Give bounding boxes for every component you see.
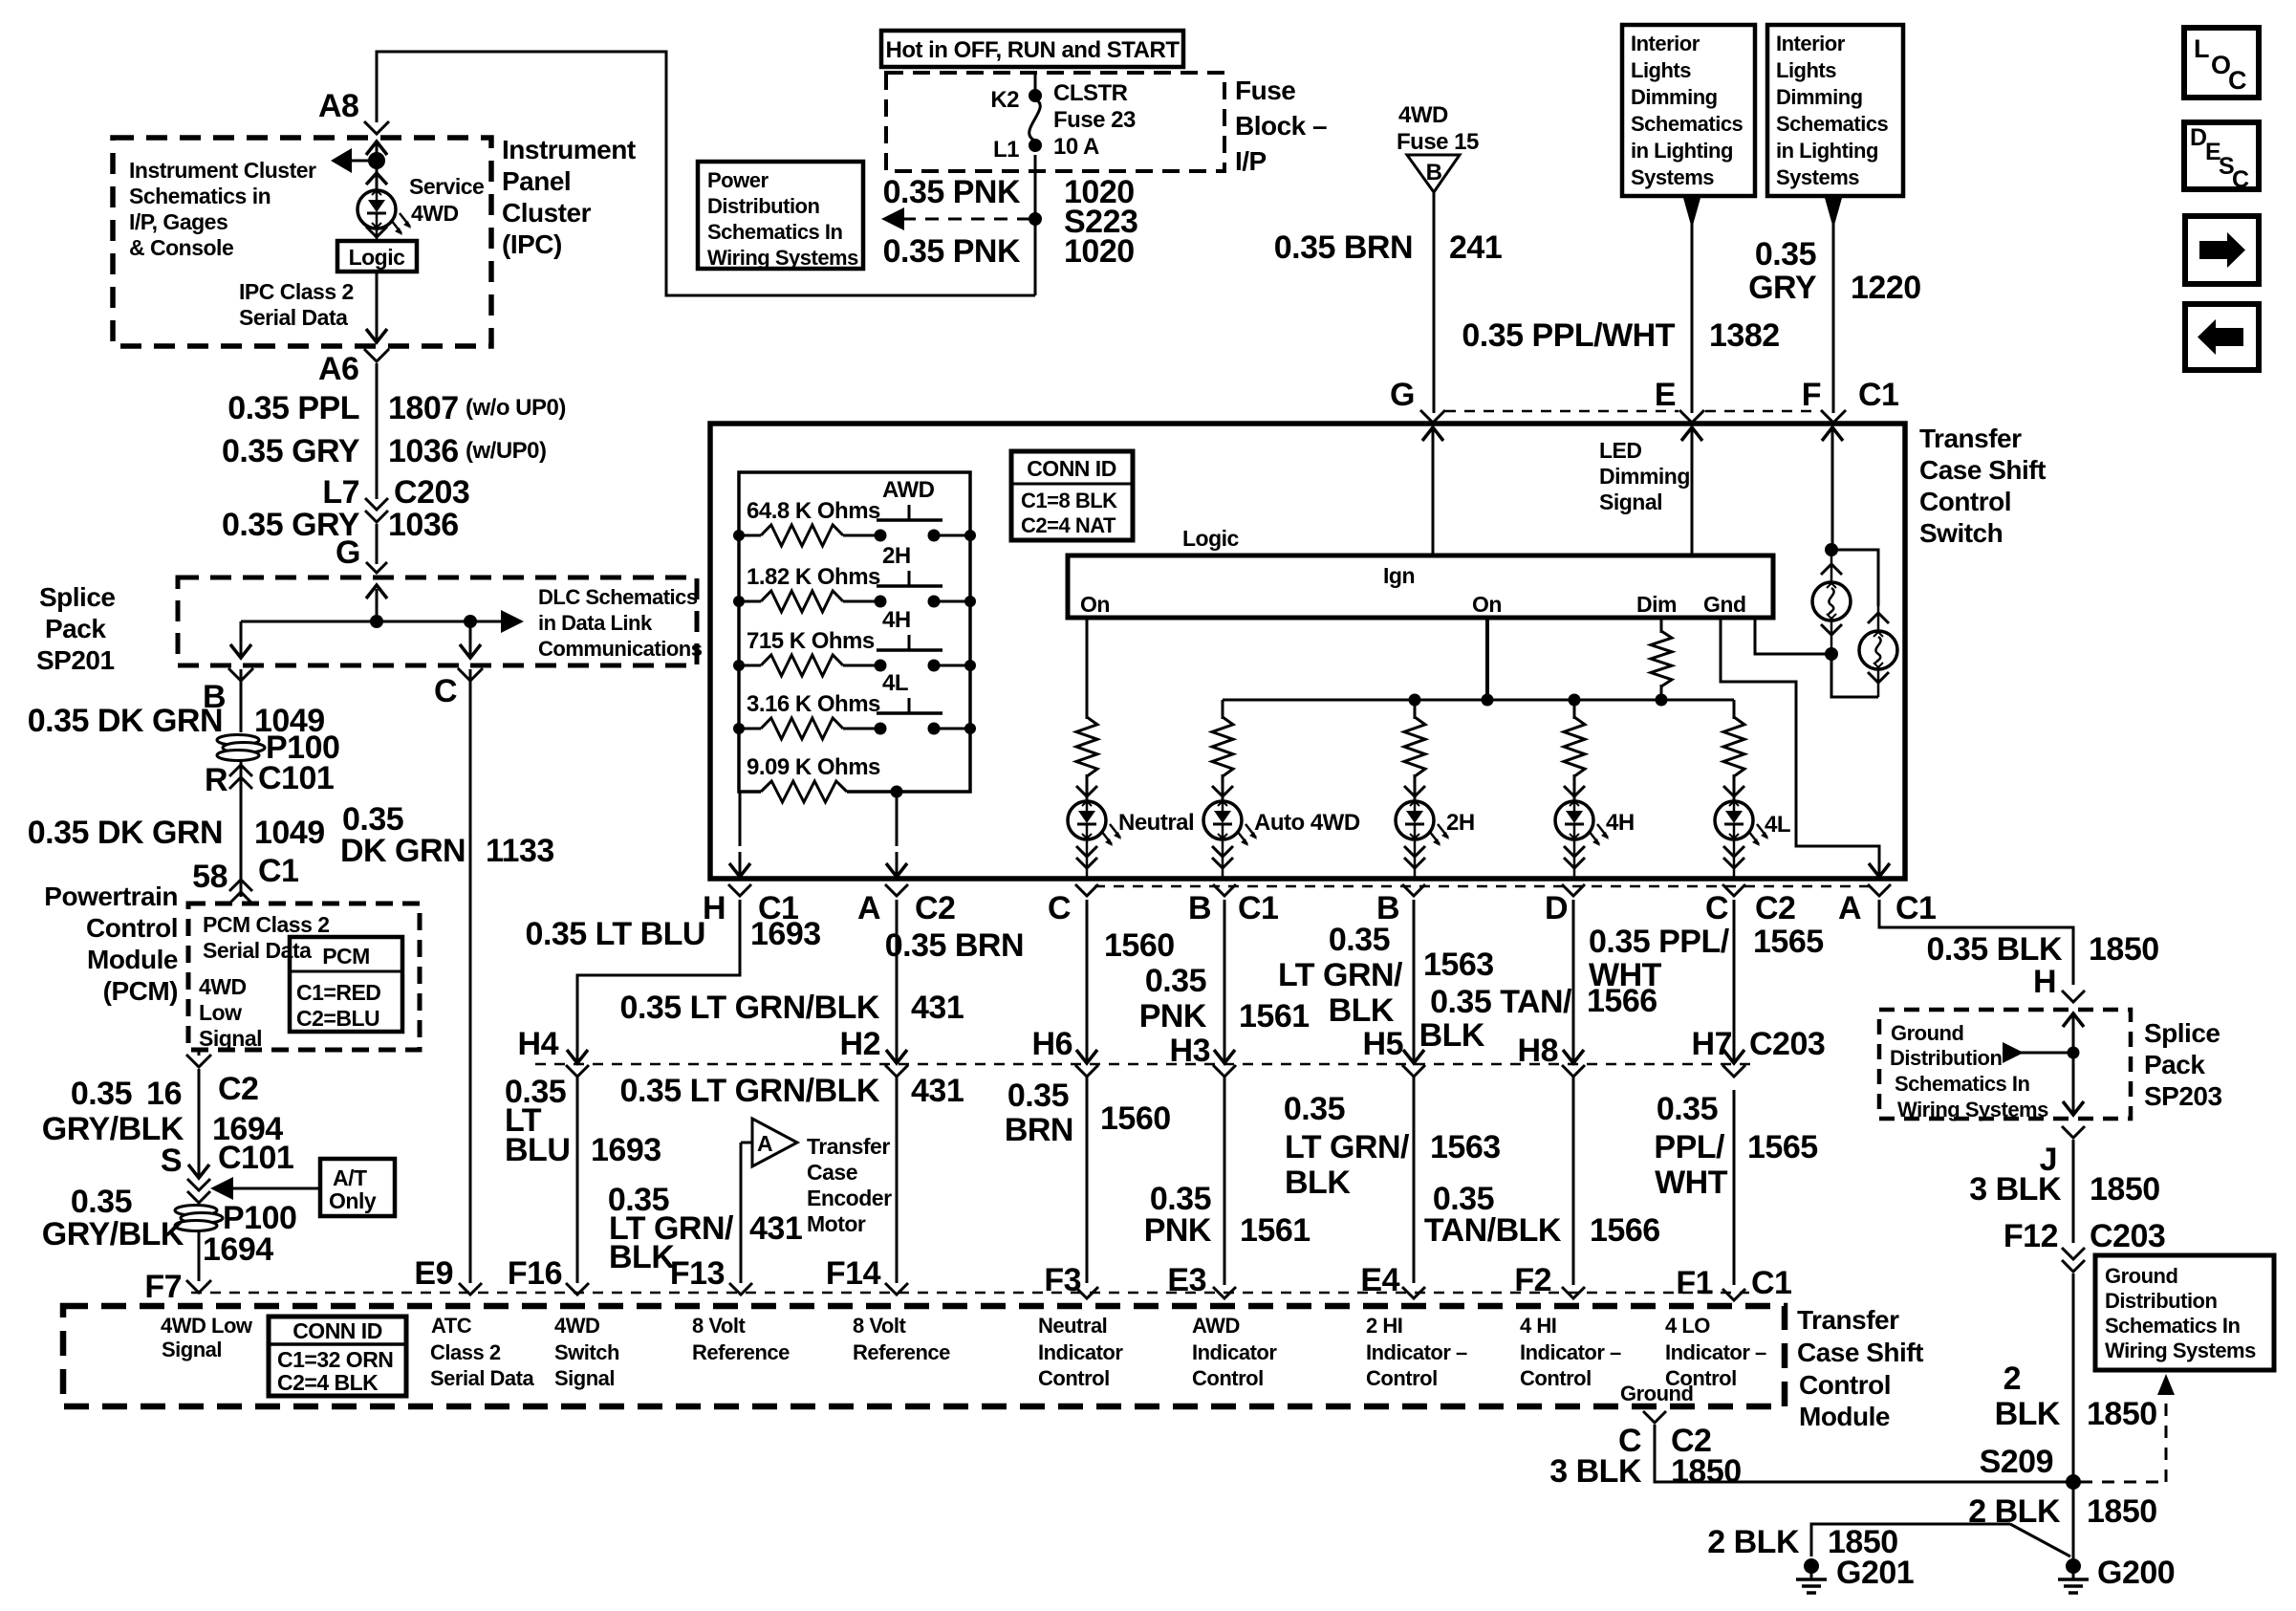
wire PCM C2 to C101 <box>198 1069 201 1165</box>
svg-text:Ground: Ground <box>2105 1264 2177 1288</box>
label Dim <box>1636 592 1677 617</box>
connector B below switch (2HI) <box>1376 884 1425 926</box>
svg-text:Dimming: Dimming <box>1599 464 1690 489</box>
svg-text:B: B <box>1188 890 1211 926</box>
label 3 BLK 1850 (J) <box>1969 1171 2159 1208</box>
power distribution box <box>698 162 863 270</box>
connector F16 <box>508 1255 589 1295</box>
svg-text:Control: Control <box>1799 1370 1891 1400</box>
svg-text:64.8 K Ohms: 64.8 K Ohms <box>747 498 880 524</box>
svg-text:Dimming: Dimming <box>1631 85 1718 109</box>
svg-text:0.35 DK GRN: 0.35 DK GRN <box>28 815 223 851</box>
wire SP201 branch B <box>230 621 251 658</box>
wire J to F12 <box>2072 1140 2075 1243</box>
svg-text:C1: C1 <box>258 853 298 889</box>
label Fuse Block - I/P <box>1235 76 1327 176</box>
svg-text:BLK: BLK <box>1419 1017 1485 1054</box>
interior lights dimming box 2 <box>1767 25 1903 196</box>
svg-text:A: A <box>1838 890 1861 926</box>
label 0.35 TAN/BLK 1566 (lower) <box>1424 1181 1660 1249</box>
svg-text:Distribution: Distribution <box>1890 1046 2002 1070</box>
svg-text:Signal: Signal <box>1599 490 1662 514</box>
label 2 BLK 1850 (below S209) <box>1968 1493 2156 1530</box>
svg-text:1850: 1850 <box>1671 1453 1742 1490</box>
svg-text:715 K Ohms: 715 K Ohms <box>747 628 875 654</box>
note PCM Class 2 Serial Data <box>203 912 330 963</box>
connector C below switch <box>1048 884 1098 926</box>
svg-text:AWD: AWD <box>1192 1314 1240 1338</box>
label Auto 4WD <box>1254 810 1360 836</box>
svg-text:C: C <box>2228 66 2246 95</box>
note Transfer Case Encoder Motor <box>807 1134 892 1236</box>
svg-text:Pack: Pack <box>2144 1050 2205 1079</box>
connector H SP203 <box>2033 964 2085 1002</box>
svg-text:0.35: 0.35 <box>71 1076 132 1112</box>
label 0.35 BRN 241 <box>1274 229 1503 266</box>
svg-text:Ground: Ground <box>1891 1021 1963 1045</box>
ground G200 <box>2058 1555 2175 1593</box>
svg-text:16: 16 <box>146 1076 182 1112</box>
svg-text:C: C <box>1705 890 1728 926</box>
svg-text:AWD: AWD <box>882 477 935 503</box>
svg-text:Schematics: Schematics <box>1631 112 1744 136</box>
wire F12 to S209 <box>2072 1274 2075 1551</box>
resistor Neutral LED <box>1076 717 1097 801</box>
grommet P100 (lower) <box>175 1200 296 1236</box>
resistor 4H LED <box>1564 717 1585 801</box>
svg-text:G201: G201 <box>1836 1555 1914 1591</box>
svg-text:Distribution: Distribution <box>707 194 819 218</box>
label On (right) <box>1472 592 1502 617</box>
svg-text:Control: Control <box>1038 1366 1110 1390</box>
resistor Dim <box>1651 618 1672 700</box>
svg-text:K2: K2 <box>990 87 1019 113</box>
wire A to SP203 H <box>1879 900 2073 985</box>
svg-text:in Lighting: in Lighting <box>1776 139 1878 163</box>
svg-text:Fuse 23: Fuse 23 <box>1053 107 1136 133</box>
svg-text:1850: 1850 <box>2089 931 2159 968</box>
instrument cluster dashed box <box>113 138 491 346</box>
label Splice Pack SP201 <box>36 582 115 675</box>
note ground distribution schematics (SP203) <box>1890 1021 2048 1121</box>
label 0.35 DK GRN 1133 <box>340 801 554 869</box>
svg-text:I/P, Gages: I/P, Gages <box>129 209 227 234</box>
label 0.35 LT GRN/BLK 1563 (upper) <box>1278 922 1494 1029</box>
svg-text:Ground: Ground <box>1620 1382 1693 1405</box>
wire D to H8 <box>1572 900 1575 1048</box>
svg-text:C: C <box>1048 890 1071 926</box>
label Transfer Case Shift Control Module <box>1797 1305 1923 1431</box>
wire S209 to G200 <box>2072 1482 2075 1558</box>
svg-text:1563: 1563 <box>1423 947 1494 983</box>
label Splice Pack SP203 <box>2144 1018 2222 1111</box>
svg-text:Wiring Systems: Wiring Systems <box>707 246 858 270</box>
svg-text:in Lighting: in Lighting <box>1631 139 1733 163</box>
connector dashed line H row <box>535 1063 1759 1066</box>
svg-text:F: F <box>1802 377 1821 413</box>
svg-text:SP201: SP201 <box>36 645 115 675</box>
svg-text:Switch: Switch <box>554 1340 619 1364</box>
svg-text:4L: 4L <box>882 670 908 696</box>
svg-text:(IPC): (IPC) <box>502 229 562 259</box>
svg-text:0.35 PNK: 0.35 PNK <box>883 174 1021 210</box>
svg-text:0.35 BRN: 0.35 BRN <box>885 927 1024 964</box>
svg-text:F1: F1 <box>1676 1265 1713 1301</box>
conn id box (TCSM) <box>269 1317 406 1396</box>
svg-text:I/P: I/P <box>1235 146 1267 176</box>
note ATC Class 2 Serial Data <box>430 1314 534 1390</box>
svg-text:0.35 BLK: 0.35 BLK <box>1927 931 2063 968</box>
svg-text:2: 2 <box>2004 1361 2021 1397</box>
svg-text:8 Volt: 8 Volt <box>853 1314 906 1338</box>
svg-text:Control: Control <box>1919 487 2011 516</box>
connector H3 <box>1170 1033 1236 1077</box>
label 0.35 PNK 1561 (upper) <box>1139 963 1310 1034</box>
label 0.35 DK GRN 1049 58 C1 <box>28 815 325 895</box>
label 0.35 LT GRN/BLK 1563 (lower) <box>1284 1091 1501 1201</box>
wire C101 to PCM C1 <box>240 761 243 897</box>
svg-text:Case Shift: Case Shift <box>1919 455 2046 485</box>
svg-text:0.35: 0.35 <box>1755 236 1816 272</box>
wire H to H4 jog <box>577 900 740 1048</box>
svg-text:Gnd: Gnd <box>1703 592 1746 617</box>
svg-text:Control: Control <box>1192 1366 1264 1390</box>
label 0.35 GRY/BLK 16 C2 1694 <box>42 1071 283 1147</box>
svg-text:Signal: Signal <box>554 1366 615 1390</box>
svg-text:H: H <box>703 890 726 926</box>
connector H5 <box>1363 1026 1425 1077</box>
svg-text:4L: 4L <box>1765 812 1790 838</box>
svg-text:Dim: Dim <box>1636 592 1677 617</box>
wire F from interior lights 2 <box>1825 198 1842 413</box>
wire SP201 branch C <box>460 621 481 658</box>
wire E LED dimming signal <box>1681 427 1702 555</box>
svg-text:Communications: Communications <box>538 637 703 661</box>
svg-text:C203: C203 <box>1749 1026 1825 1062</box>
note LED Dimming Signal <box>1599 438 1690 514</box>
inline connector C101 S <box>161 1140 293 1203</box>
inline connector C203 L7 <box>322 474 469 522</box>
svg-text:Indicator: Indicator <box>1038 1340 1123 1364</box>
svg-text:1850: 1850 <box>2087 1396 2157 1432</box>
wire H5 to E4 <box>1413 1077 1416 1283</box>
svg-text:0.35 LT GRN/BLK: 0.35 LT GRN/BLK <box>620 1073 880 1109</box>
svg-text:(PCM): (PCM) <box>103 976 178 1006</box>
label 0.35 PNK 1561 (lower) <box>1144 1181 1310 1249</box>
svg-text:Interior: Interior <box>1776 32 1846 55</box>
label 0.35 PPL/WHT 1565 (upper) <box>1589 924 1824 993</box>
label C C2 3 BLK 1850 <box>1549 1423 1741 1490</box>
svg-text:4WD Low: 4WD Low <box>161 1314 253 1338</box>
wire B to P100 <box>240 669 243 732</box>
svg-text:Interior: Interior <box>1631 32 1700 55</box>
svg-text:2H: 2H <box>882 543 911 569</box>
wire Gnd path to A output <box>1721 618 1890 877</box>
wire A to H2 <box>896 900 899 1048</box>
wire SP203 vertical <box>2063 1013 2084 1115</box>
svg-text:9.09 K Ohms: 9.09 K Ohms <box>747 754 880 780</box>
svg-text:Control: Control <box>1366 1366 1438 1390</box>
label IPC Class 2 Serial Data <box>239 279 354 330</box>
svg-text:SP203: SP203 <box>2144 1081 2222 1111</box>
connector G IPC <box>336 534 387 573</box>
wire On-left to Neutral LED <box>1086 618 1089 719</box>
connector H8 <box>1518 1033 1585 1077</box>
svg-text:BLK: BLK <box>1329 992 1395 1029</box>
svg-text:2 HI: 2 HI <box>1366 1314 1402 1338</box>
note 8 Volt Reference (F14) <box>853 1314 950 1364</box>
svg-text:Schematics In: Schematics In <box>707 220 843 244</box>
svg-text:Instrument: Instrument <box>502 135 636 164</box>
svg-text:PNK: PNK <box>1144 1212 1212 1249</box>
svg-text:0.35: 0.35 <box>71 1184 132 1220</box>
svg-text:D: D <box>2190 124 2207 151</box>
svg-text:4H: 4H <box>882 607 911 633</box>
logic box switch <box>1068 555 1773 618</box>
label 0.35 GRY 1036 (w/UP0) <box>222 433 547 469</box>
svg-text:1693: 1693 <box>591 1132 661 1168</box>
svg-text:1133: 1133 <box>486 833 554 869</box>
svg-text:3 BLK: 3 BLK <box>1549 1453 1642 1490</box>
connector B SP201 <box>203 668 253 715</box>
svg-text:L7: L7 <box>322 474 359 511</box>
fuse block dashed box <box>886 73 1224 171</box>
connector H7 C203 <box>1692 1026 1826 1077</box>
wire S to P100 lower <box>198 1205 201 1281</box>
resistor ladder box <box>739 472 970 792</box>
PCM dashed box <box>188 903 420 1050</box>
connector A8 <box>318 88 389 134</box>
svg-text:Module: Module <box>87 945 178 974</box>
label 0.35 PPL 1807 (w/o UP0) <box>227 390 566 426</box>
label 0.35 BRN 1560 (lower) <box>1005 1078 1171 1148</box>
svg-text:A6: A6 <box>318 351 358 387</box>
indicator LED 4H <box>1555 786 1609 879</box>
label 0.35 TAN/BLK 1566 (upper) <box>1419 983 1657 1054</box>
svg-text:Low: Low <box>199 1000 242 1025</box>
svg-text:C2=4 BLK: C2=4 BLK <box>277 1370 379 1395</box>
svg-text:Indicator: Indicator <box>1192 1340 1277 1364</box>
svg-text:3.16 K Ohms: 3.16 K Ohms <box>747 691 880 717</box>
splice pack SP203 dashed box <box>1879 1010 2131 1119</box>
label 2H <box>1446 810 1475 836</box>
note 4 HI Indicator Control <box>1520 1314 1621 1390</box>
connector dashed line below switch <box>1094 885 1872 888</box>
resistor 2H LED <box>1404 717 1425 801</box>
svg-text:Logic: Logic <box>349 245 406 270</box>
connector C2 PCM out <box>186 1050 211 1067</box>
svg-text:0.35: 0.35 <box>1007 1078 1069 1114</box>
resistor Auto 4WD LED <box>1212 717 1233 801</box>
svg-text:GRY/BLK: GRY/BLK <box>42 1216 184 1252</box>
splice SP203 node <box>2003 1042 2080 1063</box>
svg-text:C1: C1 <box>1895 890 1936 926</box>
wire rail to 4H LED <box>1573 700 1576 719</box>
resistor 4L LED <box>1723 717 1744 801</box>
svg-text:Motor: Motor <box>807 1211 866 1236</box>
svg-text:C101: C101 <box>258 760 334 796</box>
inline connector C203 F12 <box>2004 1218 2165 1272</box>
svg-text:BRN: BRN <box>1005 1112 1073 1148</box>
svg-text:H2: H2 <box>840 1026 880 1062</box>
svg-text:C1=RED: C1=RED <box>296 980 380 1005</box>
indicator LED 2H <box>1396 786 1449 879</box>
label 4L <box>1765 812 1790 838</box>
label 0.35 GRY/BLK 1694 (lower) <box>42 1184 273 1268</box>
label 0.35 BLK 1850 <box>1927 931 2159 968</box>
label Powertrain Control Module (PCM) <box>44 882 178 1006</box>
svg-text:Logic: Logic <box>1182 526 1240 551</box>
svg-text:0.35 PNK: 0.35 PNK <box>883 233 1021 270</box>
connector C SP201 out <box>434 668 483 709</box>
svg-text:4WD: 4WD <box>199 974 247 999</box>
svg-text:1565: 1565 <box>1747 1129 1818 1165</box>
svg-text:Block –: Block – <box>1235 111 1327 141</box>
svg-text:On: On <box>1472 592 1502 617</box>
label 0.35 LT GRN/BLK 431 (lower) <box>620 1073 964 1109</box>
resistor 715 K Ohms row with switch contact <box>733 607 976 676</box>
svg-text:Systems: Systems <box>1631 165 1714 189</box>
inline connector C101 R <box>205 760 334 798</box>
svg-text:0.35 BRN: 0.35 BRN <box>1274 229 1413 266</box>
svg-text:ATC: ATC <box>431 1314 472 1338</box>
wire ladder common to A out <box>886 792 907 877</box>
svg-text:BLK: BLK <box>1995 1396 2061 1432</box>
svg-text:Signal: Signal <box>199 1026 262 1051</box>
svg-text:2 BLK: 2 BLK <box>1707 1524 1800 1560</box>
label 0.35 DK GRN 1049 (upper) <box>28 703 325 739</box>
svg-text:TAN/BLK: TAN/BLK <box>1424 1212 1562 1249</box>
A/T Only note box <box>320 1159 395 1216</box>
splice pack SP201 dashed box <box>178 577 697 665</box>
svg-text:Indicator –: Indicator – <box>1366 1340 1467 1364</box>
svg-text:1563: 1563 <box>1430 1129 1501 1165</box>
svg-text:1220: 1220 <box>1851 270 1921 306</box>
svg-text:F12: F12 <box>2004 1218 2058 1254</box>
transfer case encoder motor buffer <box>741 1119 797 1166</box>
svg-text:1036: 1036 <box>388 507 459 543</box>
svg-text:Panel: Panel <box>502 166 571 196</box>
label Service 4WD <box>409 174 484 226</box>
svg-text:R: R <box>205 762 227 798</box>
svg-text:C203: C203 <box>2090 1218 2165 1254</box>
svg-text:(w/UP0): (w/UP0) <box>466 438 547 464</box>
svg-text:Indicator –: Indicator – <box>1665 1340 1766 1364</box>
svg-text:E: E <box>1655 377 1676 413</box>
svg-text:Fuse: Fuse <box>1235 76 1295 105</box>
arrow to DLC schematics <box>501 610 524 633</box>
svg-text:WHT: WHT <box>1589 957 1662 993</box>
svg-text:LED: LED <box>1599 438 1642 463</box>
label 0.35 LT GRN/BLK 431 (upper) <box>620 990 964 1026</box>
note 4WD Low Signal (PCM) <box>199 974 262 1051</box>
connector E9 <box>414 1255 482 1295</box>
ground distribution box (bottom right) <box>2095 1255 2274 1370</box>
connector A C2 below switch <box>857 884 956 926</box>
svg-text:On: On <box>1080 592 1110 617</box>
svg-text:Switch: Switch <box>1919 518 2003 548</box>
wire G inside switch <box>1422 427 1443 555</box>
wire C to H7 <box>1733 900 1736 1048</box>
note DLC schematics in data link communications <box>538 585 703 661</box>
arrow A/T only <box>210 1177 319 1200</box>
wire A6 to C203 <box>376 363 379 499</box>
connector F14 <box>826 1255 908 1295</box>
svg-text:Serial Data: Serial Data <box>430 1366 534 1390</box>
svg-text:1382: 1382 <box>1709 317 1780 354</box>
note Neutral Indicator Control <box>1038 1314 1123 1390</box>
svg-text:F7: F7 <box>144 1269 182 1305</box>
svg-text:1850: 1850 <box>2090 1171 2160 1208</box>
label 0.35 LT GRN/BLK 431 (F13) <box>608 1182 802 1275</box>
svg-text:Class 2: Class 2 <box>430 1340 501 1364</box>
svg-text:1693: 1693 <box>750 916 821 952</box>
svg-text:Serial Data: Serial Data <box>203 938 312 963</box>
note 2 HI Indicator Control <box>1366 1314 1467 1390</box>
resistor 3.16 K Ohms row with switch contact <box>733 670 976 739</box>
svg-text:E9: E9 <box>414 1255 453 1292</box>
label 0.35 PNK 1020 (upper) <box>883 174 1135 210</box>
svg-text:(w/o UP0): (w/o UP0) <box>466 395 566 421</box>
label Logic (switch) <box>1182 526 1240 551</box>
note AWD Indicator Control <box>1192 1314 1277 1390</box>
svg-text:C2=4 NAT: C2=4 NAT <box>1021 513 1116 537</box>
svg-text:F16: F16 <box>508 1255 562 1292</box>
svg-text:B: B <box>1426 160 1442 185</box>
label 0.35 LT BLU 1693 <box>526 916 821 952</box>
label Neutral <box>1118 810 1194 836</box>
svg-text:431: 431 <box>911 990 964 1026</box>
label 0.35 BRN 1560 (upper) <box>885 927 1175 964</box>
note Ground (TCSM) <box>1620 1382 1693 1405</box>
svg-text:Instrument Cluster: Instrument Cluster <box>129 158 316 183</box>
note 4WD Low Signal (TCSM) <box>161 1314 253 1361</box>
wire H8 to F2 <box>1572 1077 1575 1285</box>
svg-text:H6: H6 <box>1032 1026 1072 1062</box>
svg-text:0.35 LT GRN/BLK: 0.35 LT GRN/BLK <box>620 990 880 1026</box>
connector E3 <box>1167 1262 1236 1298</box>
LED feed rail <box>1223 694 1734 707</box>
svg-text:CONN ID: CONN ID <box>1027 456 1116 481</box>
svg-text:GRY: GRY <box>1748 270 1817 306</box>
svg-text:0.35 PPL: 0.35 PPL <box>227 390 359 426</box>
svg-text:Systems: Systems <box>1776 165 1859 189</box>
conn id box (switch) <box>1011 451 1133 540</box>
svg-text:Dimming: Dimming <box>1776 85 1863 109</box>
wire H7 to F1 <box>1733 1090 1736 1285</box>
connector H6 <box>1032 1026 1098 1077</box>
svg-text:Wiring Systems: Wiring Systems <box>1897 1098 2048 1121</box>
svg-text:Power: Power <box>707 168 769 192</box>
svg-text:Distribution: Distribution <box>2105 1289 2217 1313</box>
svg-text:PPL/: PPL/ <box>1654 1129 1725 1165</box>
svg-text:Reference: Reference <box>692 1340 790 1364</box>
svg-text:3 BLK: 3 BLK <box>1969 1171 2062 1208</box>
connector F13 <box>670 1255 752 1295</box>
svg-text:LT GRN/: LT GRN/ <box>1278 957 1403 993</box>
svg-text:CLSTR: CLSTR <box>1053 80 1128 106</box>
svg-text:H4: H4 <box>518 1026 559 1062</box>
svg-text:G: G <box>1390 377 1415 413</box>
svg-text:Fuse 15: Fuse 15 <box>1397 129 1479 155</box>
svg-text:4 HI: 4 HI <box>1520 1314 1556 1338</box>
svg-text:Auto 4WD: Auto 4WD <box>1254 810 1360 836</box>
logic box IPC <box>337 241 417 272</box>
svg-text:C2: C2 <box>218 1071 258 1107</box>
svg-text:10 A: 10 A <box>1053 134 1099 160</box>
svg-text:Schematics: Schematics <box>1776 112 1889 136</box>
svg-text:431: 431 <box>749 1210 802 1247</box>
